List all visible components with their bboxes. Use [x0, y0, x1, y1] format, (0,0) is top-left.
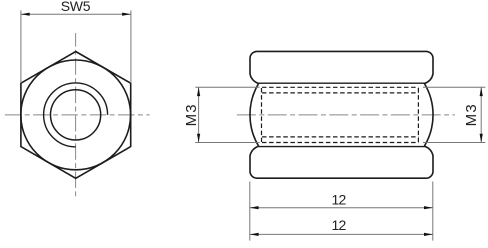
thread hidden line top inner — [262, 92, 419, 94]
bottom ext line right — [432, 182, 434, 241]
M3 left arrow down — [197, 134, 200, 143]
hidden vertical left — [261, 88, 263, 142]
hole circle — [51, 90, 101, 140]
front view vertical centerline — [75, 33, 77, 198]
side view centerline — [234, 114, 455, 116]
M3 right dim line — [480, 87, 482, 142]
thread hidden line bottom outer — [262, 142, 419, 144]
svg-text:M3: M3 — [183, 103, 200, 126]
12 lower right arrow — [424, 233, 433, 236]
svg-text:M3: M3 — [463, 103, 480, 126]
thread hidden line bottom inner — [262, 136, 419, 138]
M3 left dim line — [198, 87, 200, 142]
SW5 left arrow — [21, 13, 30, 16]
side view outline — [250, 51, 433, 178]
thread arc (3/4 circle, gap lower-right) — [44, 83, 108, 147]
M3 right ext bottom — [423, 142, 485, 144]
dim line 12 upper — [250, 207, 433, 209]
M3 left ext bottom — [195, 142, 259, 144]
12 upper left arrow — [250, 206, 259, 209]
dim line 12 lower — [250, 233, 433, 235]
12 upper right arrow — [424, 206, 433, 209]
M3 right arrow down — [480, 134, 483, 143]
hidden vertical right — [417, 88, 419, 142]
SW5 extension line left — [20, 10, 22, 83]
SW5 dimension line — [21, 13, 131, 15]
svg-text:SW5: SW5 — [61, 0, 91, 14]
SW5 extension line right — [130, 10, 132, 83]
M3 right arrow up — [480, 87, 483, 96]
M3 left ext top — [195, 86, 259, 88]
front view horizontal centerline — [5, 114, 150, 116]
bottom face edge — [259, 146, 425, 148]
hexagon outline — [21, 52, 131, 179]
M3 right ext top — [423, 86, 485, 88]
top face edge — [259, 82, 425, 84]
svg-text:12: 12 — [332, 191, 347, 207]
SW5 right arrow — [122, 13, 131, 16]
bottom ext line left — [249, 182, 251, 241]
chamfer circle — [21, 60, 131, 170]
12 lower left arrow — [250, 233, 259, 236]
thread hidden line top outer — [262, 86, 419, 88]
svg-text:12: 12 — [332, 217, 347, 233]
M3 left arrow up — [197, 87, 200, 96]
